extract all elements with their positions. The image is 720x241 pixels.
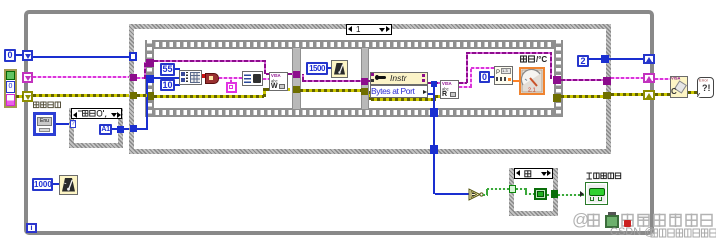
wire (VISA into property node) [368, 80, 372, 82]
tunnel (small case out) [117, 126, 124, 133]
svg-text:2.1: 2.1 [528, 88, 536, 94]
wait until next ms multiple VI [59, 175, 78, 195]
wire (error under property node) [369, 91, 372, 100]
wire (error to case tunnel) [561, 95, 604, 98]
wire (error inside case) [137, 94, 147, 97]
constant 55 [160, 63, 175, 76]
iteration terminal i [26, 223, 37, 233]
enum control (current node) [33, 112, 56, 136]
wire (string out to convert) [459, 86, 472, 88]
wait (ms) VI [331, 60, 348, 78]
flat sequence structure [145, 40, 563, 49]
concatenate strings VI [242, 71, 263, 86]
NOT gate [468, 188, 486, 201]
wire (VISA node to read) [428, 82, 440, 84]
tunnel (case left, A1 string in) [130, 125, 137, 132]
tunnel (divider1 error) [293, 86, 300, 93]
constant 1500 [306, 62, 328, 75]
error cluster constant [4, 69, 17, 108]
wire (error run f1) [154, 95, 264, 98]
tunnel (case left, VISA) [130, 74, 137, 81]
fract/exp string to number VI [494, 66, 513, 85]
wire [589, 58, 603, 60]
VISA write VI [269, 72, 288, 91]
tunnel (divider1 VISA) [293, 71, 300, 78]
selector label "节点0" [71, 108, 122, 119]
wire (VISA to close) [655, 78, 670, 80]
shift register left (string) [22, 72, 33, 83]
tunnel (seq left, VISA) [146, 59, 154, 67]
wire (serial port blue into VI) [154, 77, 180, 79]
label 当前节点 [33, 101, 62, 109]
wire (VISA run f2) [302, 74, 304, 81]
tunnel (case right numeric) [601, 55, 609, 63]
wire (DBL to thermometer) [513, 80, 519, 82]
wire [53, 183, 59, 185]
property node (Bytes at Port) [370, 85, 428, 98]
shift register right (error) [643, 90, 655, 100]
wire [175, 68, 180, 70]
wire (VISA out up and across) [459, 82, 467, 84]
wire [611, 77, 644, 79]
VISA read VI [440, 80, 459, 99]
tunnel (seq bottom) [430, 108, 438, 117]
LED indicator terminal [585, 182, 608, 205]
wire [15, 54, 23, 56]
wire (SR to case, error) [33, 94, 133, 97]
wire (to LED) [558, 194, 585, 196]
wire (SR to case selector, numeric) [33, 56, 131, 58]
wire [112, 128, 118, 130]
case structure (node selector small) [69, 108, 123, 148]
shift register left (error) [22, 91, 33, 102]
wire [547, 194, 552, 196]
VISA close VI [670, 76, 688, 98]
tunnel (case bottom) [430, 145, 438, 154]
wire (error to handler) [688, 91, 697, 94]
juejin logo [605, 215, 619, 228]
wire (string to concat) [219, 77, 242, 79]
shift register right (string) [643, 73, 655, 83]
wire (error to close) [655, 93, 670, 96]
wire [175, 84, 180, 86]
wire [124, 128, 132, 130]
sequence frame divider 2 [361, 48, 369, 109]
tunnel (case2 out) [551, 190, 558, 198]
tunnel (seq right VISA) [553, 76, 561, 84]
wire (VISA run f1) [154, 60, 266, 62]
string constant A1 [99, 124, 112, 135]
label 温度/°C [520, 55, 536, 64]
case selector tunnel [129, 52, 137, 61]
wire junction red [202, 74, 206, 78]
tunnel (case left, error) [130, 92, 137, 99]
constant 10 [160, 79, 175, 91]
tunnel (case right VISA) [603, 77, 611, 85]
shift register left (numeric) [22, 50, 33, 61]
selector terminal [70, 120, 76, 128]
wire (enum to small case selector) [56, 123, 70, 125]
wire [490, 76, 494, 78]
tunnel (seq right error) [553, 94, 561, 102]
label 工作指示灯 [586, 172, 622, 180]
string constant (pink) [226, 82, 237, 93]
VISA configure serial port VI [179, 70, 202, 85]
wire [516, 188, 526, 190]
constant 2 (next state) [577, 55, 589, 67]
tunnel (seq left, error) [146, 92, 154, 100]
wire (NOT out, boolean) [483, 194, 488, 196]
wire (error cluster to SR) [16, 95, 23, 98]
tunnel (divider2 VISA) [361, 78, 368, 85]
shift register right (numeric) [643, 54, 655, 64]
case structure (main) [129, 24, 611, 154]
selector label "1" [346, 24, 392, 35]
tunnel (divider2 error) [361, 88, 368, 95]
simple error handler VI [697, 77, 714, 98]
wire (VISA resource inside case) [137, 77, 146, 79]
constant 0 (offset) [479, 71, 490, 83]
wire [328, 67, 332, 69]
watermark csdn [610, 226, 655, 238]
property node (Instr) [370, 72, 428, 85]
wire (error run f2) [300, 89, 361, 92]
watermark juejin [572, 210, 589, 230]
wire [611, 93, 644, 96]
tunnel (case2 in) [509, 185, 516, 193]
thermometer indicator (meter) [519, 67, 545, 95]
wire (A1 into case, up along sequence) [137, 128, 147, 130]
wire (VISA write out) [288, 73, 293, 75]
wire (SR to case, VISA string) [33, 76, 132, 78]
wire (byte count junction and down-run to NOT gate) [428, 93, 435, 95]
wire (concat to VISA write) [263, 78, 270, 80]
wire (VISA to case tunnel) [561, 79, 604, 81]
wire [609, 58, 644, 60]
selector label 假 [514, 168, 553, 179]
constant 0 (state init) [4, 49, 16, 62]
tunnel (case right error) [603, 92, 611, 99]
boolean constant (T) [534, 188, 547, 200]
match pattern icon (maroon) [205, 73, 219, 84]
sequence frame divider 1 [292, 48, 301, 109]
constant 1000 [32, 178, 53, 191]
tunnel (seq left, serial/A1) [146, 75, 154, 83]
case structure (bottom boolean) [509, 168, 558, 216]
